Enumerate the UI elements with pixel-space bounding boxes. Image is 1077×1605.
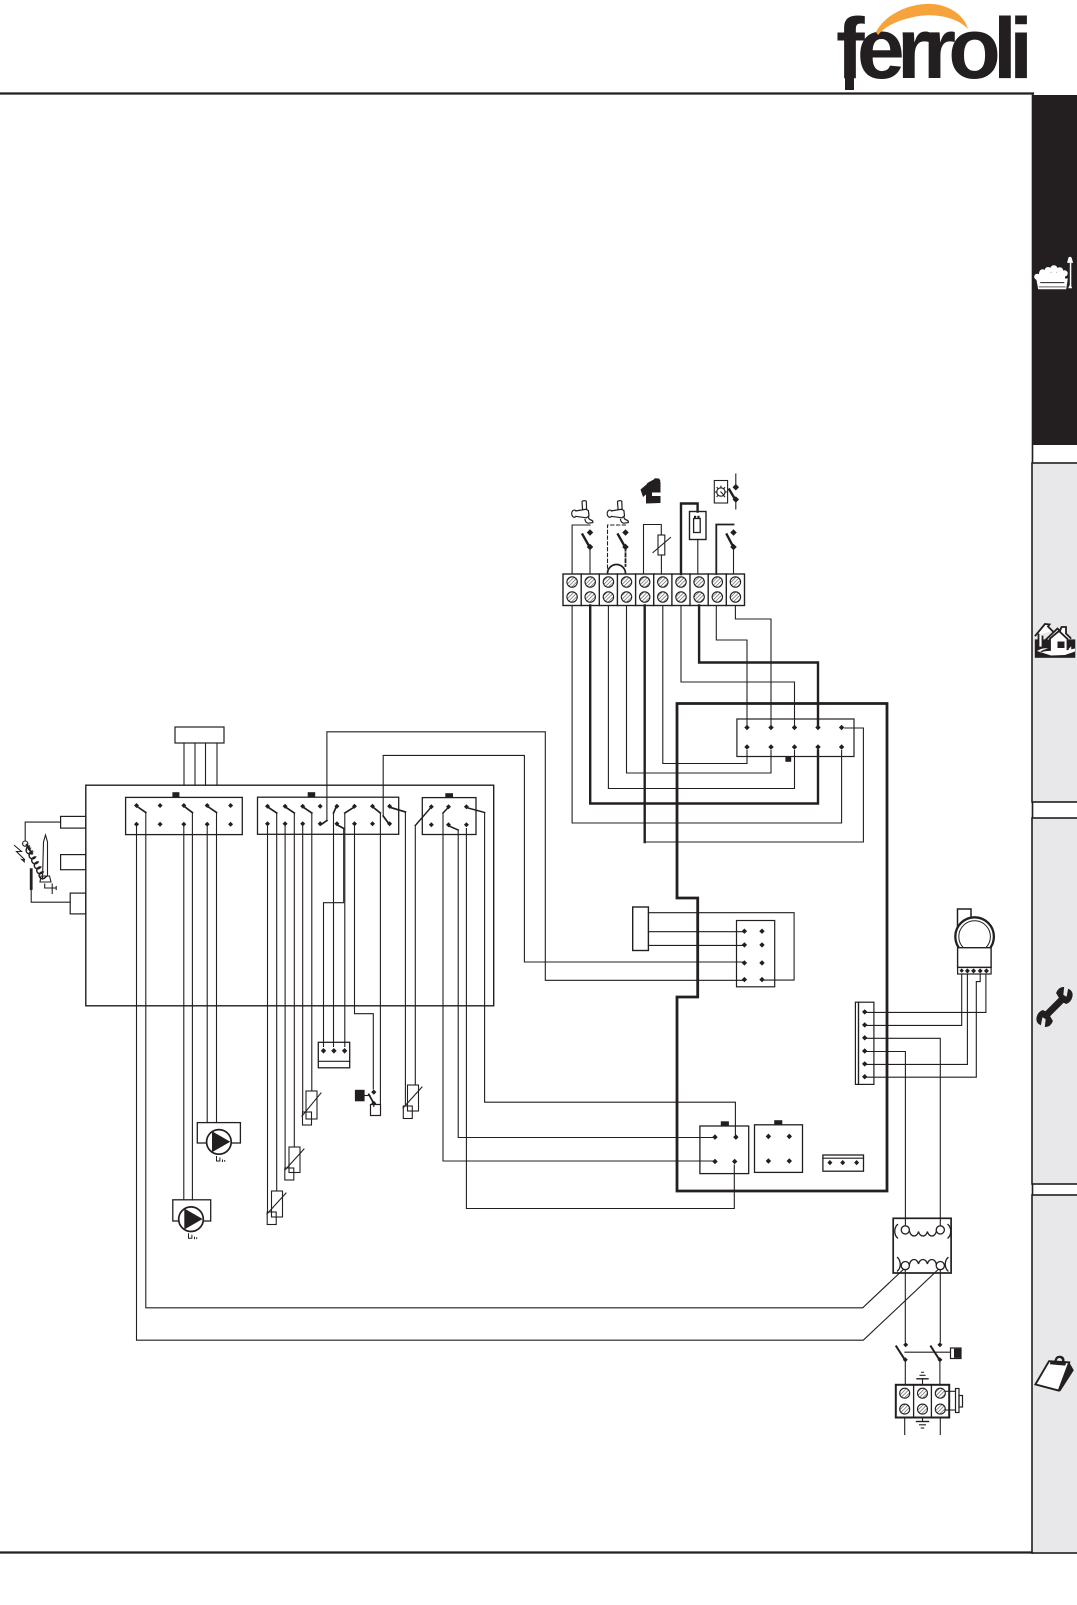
connector D1 on PCB [700,1126,749,1174]
pump P2 [173,1200,211,1232]
room unit icon (black house) [641,478,661,503]
wire A1 bottom to transformer via bottom run [137,825,938,1340]
wire A4 bottom to pump P1 [206,825,208,1123]
wire terminal 2 to X1 pin9 (thick) [590,606,818,804]
wire terminal 8 to X1 pin4 (thick) [699,606,818,726]
connector B pins [265,804,392,827]
B col3 top lever [304,808,312,814]
wire J2 loop to X2 pin R4 [648,913,794,980]
sensor T1 (thermistor) [302,1091,321,1125]
terminal M1 screws row 1 [567,577,741,587]
connector C pins [429,804,469,827]
wire E6 to fan pin4 [865,974,981,1077]
B col8 top lever [391,808,406,813]
net wire (terminal area to B col4) [321,732,744,981]
connector D2 on PCB [755,1125,803,1173]
fan pins [960,968,989,973]
A col4 top lever [208,807,216,813]
wire A3 bottom to pump P2 [183,825,185,1200]
wire B7 top to flow switch foot [379,813,381,1105]
pump P2 ground mark [189,1234,197,1239]
wire terminal 3 to X1 pin8 [608,606,794,789]
C col2 top lever [443,808,448,813]
wire C3 bottom to connector D1 pin BR [466,829,734,1209]
wire B3 top to sensor T1 [311,813,313,1091]
wire B5 top to fuse box pin2 [333,813,335,1047]
connector D1 key [721,1121,729,1126]
igniter thick bar [30,870,33,889]
ferroli logo orange swoosh [876,4,968,35]
mains terminal block [896,1385,949,1418]
wire J2 to X2 pin L1 [648,931,744,933]
connector A pins [134,803,233,827]
sidebar gray box 4 [1032,1195,1077,1553]
wire A3 top to pump P2 [191,813,193,1200]
pump P1 [197,1123,240,1155]
wire E5 to fan pin2 [865,974,968,1064]
ignition electrode wire [25,822,60,841]
A col3 top lever [185,807,193,813]
sidebar sofa icon [1034,257,1073,290]
flow switch [355,1090,381,1116]
mains terminal screws [900,1388,946,1414]
mains plug bracket [945,1389,962,1413]
external switch above terminals 9-10 [729,474,738,509]
connector D1 pins [712,1134,738,1164]
wire A4 top to pump P1 [216,813,218,1123]
wire terminal 5 riser (thick) [644,606,646,843]
spark electrode stub [27,845,33,854]
wire E2 to fan pin1 [865,974,962,1025]
svg-text:ferroli: ferroli [836,1,1028,97]
wire E3 to transformer right [865,1038,941,1226]
connector X2 on PCB (2x4) [737,921,775,987]
header rule [0,92,1033,94]
igniter return wire [31,889,70,903]
transformer TR1 [893,1218,951,1273]
wire E4 to transformer left [865,1052,906,1227]
earth symbol above mains terminal [917,1372,928,1385]
spark arrow [15,846,25,864]
wire terminal 5 to sensor [644,525,662,575]
B col2 top lever [286,808,294,814]
wire transformer right to mains switch [939,1270,941,1342]
connector D3 pins [827,1160,859,1165]
jumper bridge terminals 3-4 [608,565,626,574]
wire B2 top to sensor T2 [293,813,295,1147]
wire E1 to fan pin5 [865,974,986,1012]
C col2 bottom lever [450,826,459,830]
wire terminal 7 to X1 pin3 [681,606,795,726]
ferroli logo text [836,1,1028,97]
X1 pins [744,725,844,750]
PCB board outline (thick) [677,704,887,1192]
connector B block [258,797,399,834]
wire transformer left to mains switch [904,1270,906,1342]
wire B1 bottom to sensor T3 [267,824,269,1212]
wire N below terminal [939,1418,941,1435]
wire B6 bottom to flow switch [355,824,374,1089]
B col1 top lever [269,808,277,814]
wire L below terminal [904,1418,906,1435]
sensor T3 (thermistor) [267,1191,286,1225]
footer rule [0,1551,1033,1553]
sidebar clipboard icon [1035,1356,1073,1392]
wire fuse to terminal 8 [697,540,699,575]
wire B8 top to sensor T4 [404,812,406,1106]
wire terminal 10 to X1 pin2 [735,606,771,726]
switch terminals 9-10 [716,525,736,575]
net wire (terminal area to B col8 bottom) [383,755,744,962]
connector A block [126,797,243,834]
outdoor sensor (thermistor, terminals 5-6) [653,535,671,574]
connector D3 on PCB (3-pin) [823,1155,864,1171]
X2 pins [742,929,765,983]
enclosure tab 3 [70,893,86,914]
detection electrode [43,835,48,879]
B col5 bottom lever [338,825,344,828]
wire B5 bottom to fuse box pin1 (staircase) [324,829,344,1047]
switch (dashed option, terminals 3-4) [608,525,629,574]
terminal M1 screws row 2 [567,592,741,602]
wire terminal 9 to X1 pin1 [716,606,747,726]
B col5 top lever [334,808,336,814]
tap icon 2 [607,501,628,524]
connector A key [172,792,179,797]
sidebar gray box 2 [1032,463,1077,802]
terminal block M1 (10-way strip) [563,574,745,606]
enclosure tab 1 [61,816,86,828]
sidebar houses icon [1035,624,1076,658]
wire C1 top to sensor T4 [414,826,416,1086]
wire B2 bottom to sensor T2 [284,824,286,1168]
wire J2 to X2 pin L2 [648,944,744,946]
enclosure tab 2 [61,855,86,870]
sidebar wrench icon [1031,984,1077,1031]
connector E (6-pin edge) [855,1002,874,1084]
thermostat dial box [714,481,727,504]
electrode ground mark [45,884,57,894]
wire C2 bottom to connector D1 pin TL [458,830,715,1138]
pump P1 ground mark [217,1157,225,1162]
wire A1 top to transformer via bottom run [146,813,903,1308]
C col3 top lever (long) [468,808,485,813]
connector X1 on PCB (2x5) [737,719,854,757]
wire C3 top to connector D1 pin TR [485,813,736,1135]
connector E pins [862,1009,867,1079]
X1 polarity mark [785,757,791,762]
fuse holder (3-pin) [318,1042,349,1068]
header J2 on PCB (small box) [633,907,649,951]
sensor T4 (thermistor) [403,1085,422,1119]
fan / blower [955,909,994,974]
wire terminal 5 to X1 pin5 stub [645,728,864,842]
sidebar gray box 3 [1032,818,1077,1184]
thick link terminal 7 to fuse [681,504,698,575]
wire terminal 4 to X1 pin7 [627,606,772,774]
connector D2 pins [766,1134,792,1164]
wire C2 top to connector D1 pin BL [443,813,715,1161]
sensor T2 (thermistor) [285,1147,304,1180]
mains double-pole switch [896,1342,961,1385]
A col1 top lever [138,807,146,813]
ignition coil [26,847,45,879]
sidebar black tab [1032,95,1077,445]
connector D2 key [774,1120,782,1125]
connector B key [308,792,316,797]
earth symbol below mains terminal [917,1418,929,1429]
wire B6 top to fuse box pin3 [344,813,346,1047]
switch DK (terminals 1-2) [572,525,592,574]
wire B1 top to sensor T3 [276,813,278,1191]
electrode base [40,876,51,882]
wire terminal 1 to X1 pin10 [572,606,842,824]
B col6 top lever [345,808,354,814]
fuse holder pins [321,1048,348,1054]
display plug above enclosure [175,727,224,785]
control unit enclosure (left box) [86,785,494,1006]
tap icon 1 [572,501,593,524]
C col1 top lever (long) [415,809,430,826]
B col7 top lever [374,808,381,814]
sidebar left border [1032,95,1034,1553]
wire terminal 6 to X1 pin6 [663,606,747,764]
connector C key [445,793,453,797]
fuse F1 box [690,512,707,540]
connector C block [422,798,476,835]
electrode terminal circle [23,841,28,846]
wire B3 bottom to sensor T1 [302,824,304,1112]
